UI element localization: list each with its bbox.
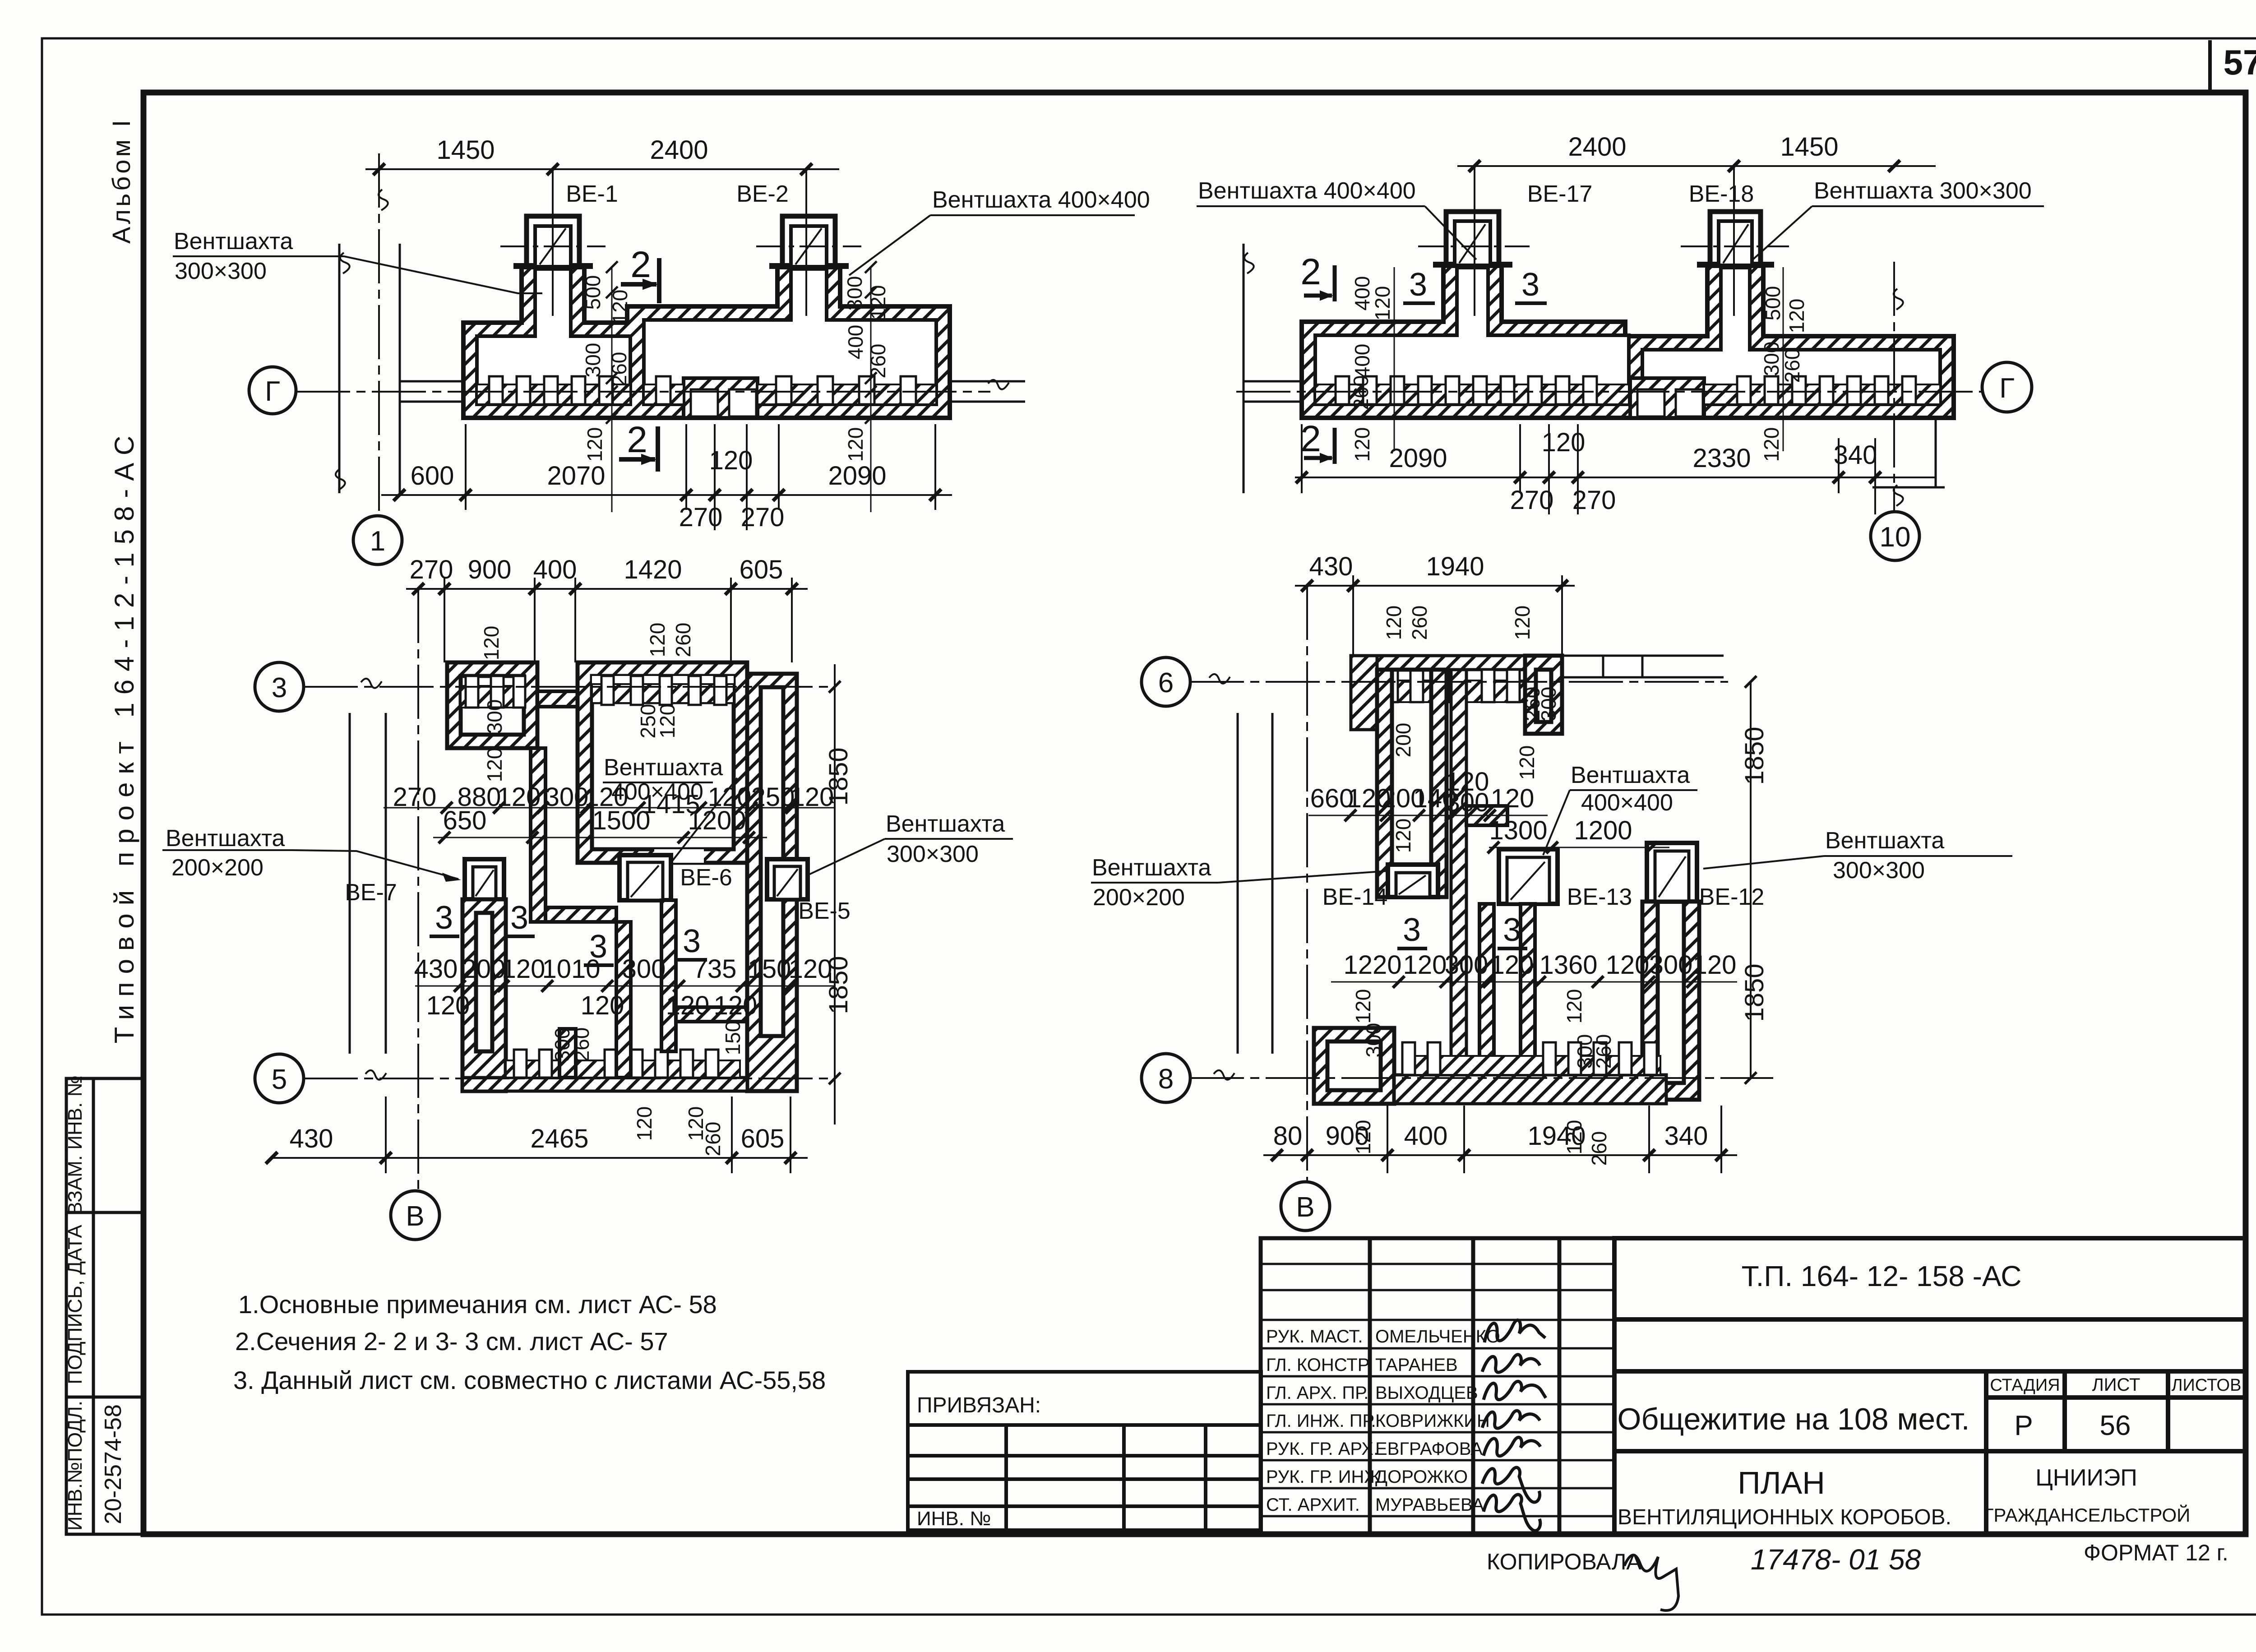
svg-text:Вентшахта: Вентшахта [1092, 855, 1211, 881]
svg-text:СТ. АРХИТ.: СТ. АРХИТ. [1266, 1495, 1360, 1515]
svg-text:120: 120 [1606, 950, 1650, 980]
wall break lines TR left [1243, 244, 1245, 493]
top right box BR [1525, 656, 1562, 734]
central wall BR [1451, 670, 1466, 1074]
svg-text:Вентшахта: Вентшахта [1571, 762, 1690, 788]
svg-text:300: 300 [622, 954, 666, 984]
left margin stamp table [66, 1078, 143, 1534]
svg-text:Вентшахта 400×400: Вентшахта 400×400 [932, 187, 1150, 213]
svg-text:1360: 1360 [1539, 950, 1597, 980]
svg-text:400: 400 [1350, 344, 1374, 379]
svg-text:120: 120 [426, 991, 470, 1020]
svg-text:400×400: 400×400 [1581, 790, 1673, 816]
section mark 2-2 upper TL [621, 258, 659, 303]
svg-text:ГЛ. КОНСТР.: ГЛ. КОНСТР. [1266, 1355, 1371, 1375]
svg-text:1300: 1300 [1489, 816, 1547, 845]
svg-text:260: 260 [1587, 1131, 1611, 1166]
svg-text:ПОДПИСЬ, ДАТА: ПОДПИСЬ, ДАТА [64, 1225, 86, 1384]
svg-text:340: 340 [1664, 1121, 1708, 1151]
svg-text:КОВРИЖКИН: КОВРИЖКИН [1375, 1411, 1490, 1431]
svg-text:РУК. ГР. ИНЖ.: РУК. ГР. ИНЖ. [1266, 1467, 1386, 1487]
column C right [747, 674, 797, 1091]
wall break lines BR left [1237, 713, 1239, 1054]
junction block TR [1630, 378, 1704, 418]
bottom wall strip left room TL [477, 384, 630, 404]
mid dim row 1 BL [384, 807, 835, 809]
shaft BE-18 box [1710, 212, 1761, 266]
svg-text:3: 3 [1503, 912, 1521, 948]
svg-text:1420: 1420 [624, 555, 682, 584]
svg-text:ВЕ-18: ВЕ-18 [1689, 181, 1754, 207]
svg-text:1415: 1415 [642, 790, 700, 819]
shaft BE-12 box [1647, 843, 1697, 902]
small vertical dims near BE-1 [611, 267, 613, 512]
svg-text:120: 120 [502, 954, 546, 984]
svg-text:260: 260 [866, 344, 890, 379]
svg-text:ТАРАНЕВ: ТАРАНЕВ [1375, 1355, 1458, 1375]
svg-text:120: 120 [1693, 950, 1737, 980]
left stamp labels [64, 1075, 126, 1531]
block A teeth [466, 676, 525, 708]
svg-text:ОМЕЛЬЧЕНКО: ОМЕЛЬЧЕНКО [1375, 1327, 1500, 1347]
svg-text:КОПИРОВАЛА: КОПИРОВАЛА [1487, 1549, 1641, 1574]
svg-text:260: 260 [1408, 606, 1431, 640]
small vertical dims near BE-18 [1783, 267, 1784, 451]
small vertical dims near BE-17 [1394, 267, 1395, 451]
svg-text:270: 270 [1510, 486, 1554, 515]
svg-text:120: 120 [1392, 819, 1415, 853]
axis Г line [296, 391, 990, 393]
svg-text:120: 120 [1351, 1120, 1375, 1155]
top teeth strip BR [1377, 680, 1525, 702]
right vertical dim BL [834, 664, 836, 1124]
svg-text:1450: 1450 [436, 135, 495, 165]
BE-6 seat opening [654, 849, 704, 863]
svg-text:В: В [406, 1201, 424, 1232]
svg-text:ВЕ-5: ВЕ-5 [798, 898, 851, 924]
svg-text:300: 300 [1446, 788, 1489, 817]
svg-text:300: 300 [1445, 950, 1489, 980]
svg-text:2400: 2400 [650, 135, 708, 165]
svg-text:1200: 1200 [1574, 816, 1632, 845]
bottom teeth strip E [506, 1060, 740, 1078]
block B center-top [578, 662, 747, 863]
block A right-bottom wall going down [531, 748, 546, 922]
adjacent wall thin top right BR [1562, 656, 1724, 677]
block A top-left [447, 662, 537, 748]
svg-text:1850: 1850 [824, 747, 853, 805]
svg-text:ВЕ-17: ВЕ-17 [1527, 181, 1593, 207]
svg-text:120: 120 [1382, 606, 1405, 640]
svg-text:430: 430 [1309, 552, 1353, 581]
svg-text:260: 260 [701, 1122, 725, 1157]
svg-text:6: 6 [1158, 667, 1174, 699]
svg-text:Типовой проект 164-12-158-АС: Типовой проект 164-12-158-АС [109, 428, 139, 1044]
svg-text:120: 120 [1760, 427, 1783, 462]
svg-text:56: 56 [2100, 1410, 2131, 1441]
ducts below BE-13 [1479, 904, 1494, 1074]
svg-text:120: 120 [1371, 286, 1394, 321]
svg-text:ВЕ-1: ВЕ-1 [566, 181, 618, 207]
svg-text:300: 300 [545, 782, 589, 812]
svg-text:Вентшахта: Вентшахта [604, 754, 723, 781]
svg-text:2: 2 [1300, 418, 1321, 459]
svg-text:Вентшахта: Вентшахта [886, 811, 1005, 837]
svg-text:ВЫХОДЦЕВ: ВЫХОДЦЕВ [1375, 1383, 1478, 1403]
section mark 2-2 lower TR [1304, 428, 1335, 464]
junction block TL [684, 378, 758, 418]
svg-text:1940: 1940 [1426, 552, 1484, 581]
signature table [1261, 1238, 1614, 1534]
svg-text:600: 600 [411, 461, 454, 491]
svg-text:120: 120 [656, 704, 679, 739]
svg-text:1850: 1850 [1740, 963, 1769, 1022]
column D below BE-7 [462, 899, 506, 1091]
svg-text:2: 2 [627, 419, 647, 460]
svg-text:РУК. ГР. АРХ.: РУК. ГР. АРХ. [1266, 1439, 1378, 1459]
svg-text:200: 200 [1392, 723, 1415, 758]
svg-text:300: 300 [581, 343, 605, 378]
svg-text:Р: Р [2014, 1410, 2033, 1441]
bottom teeth E [514, 1050, 718, 1078]
svg-text:3. Данный лист см. совместн: 3. Данный лист см. совместно с листами А… [233, 1366, 826, 1394]
section mark 2-2 upper TR [1304, 265, 1335, 301]
svg-text:ДОРОЖКО: ДОРОЖКО [1375, 1467, 1468, 1487]
svg-text:260: 260 [607, 352, 631, 387]
svg-text:3: 3 [589, 929, 607, 965]
svg-text:3: 3 [1409, 267, 1427, 303]
svg-text:120: 120 [1785, 299, 1808, 333]
svg-text:10: 10 [1880, 522, 1911, 553]
svg-text:200×200: 200×200 [171, 855, 264, 881]
svg-text:Альбом I: Альбом I [107, 117, 135, 244]
axis 10 circle [1871, 512, 1919, 560]
svg-text:2: 2 [630, 244, 651, 285]
svg-text:120: 120 [480, 626, 503, 661]
break marks [336, 190, 1903, 1080]
right room TR [1642, 268, 1940, 404]
svg-text:Г: Г [1999, 373, 2015, 404]
svg-text:120: 120 [483, 748, 506, 782]
svg-text:Общежитие на 108 мест.: Общежитие на 108 мест. [1617, 1402, 1969, 1436]
bottom band BR [1394, 1075, 1666, 1104]
svg-text:ИНВ.№ПОДЛ.: ИНВ.№ПОДЛ. [64, 1401, 86, 1531]
shaft BE-2 box [782, 216, 835, 267]
svg-text:300×300: 300×300 [175, 258, 267, 284]
svg-text:400: 400 [1404, 1121, 1448, 1151]
svg-text:В: В [1296, 1192, 1314, 1223]
axis 6 [1190, 681, 1728, 683]
bottom teeth strip BR [1402, 1056, 1660, 1075]
wall silhouette TR [1302, 266, 1954, 418]
svg-text:3: 3 [1521, 267, 1539, 303]
svg-text:ВЗАМ. ИНВ. №: ВЗАМ. ИНВ. № [64, 1075, 86, 1215]
svg-text:120: 120 [1490, 950, 1534, 980]
right vertical dim BR [1750, 682, 1752, 1078]
svg-text:120: 120 [608, 290, 632, 324]
svg-text:3: 3 [272, 672, 287, 703]
middle duct wall below BE-6 [661, 900, 676, 1051]
svg-text:120: 120 [1351, 989, 1375, 1024]
top dimension line TL [365, 163, 839, 175]
svg-text:400: 400 [533, 555, 577, 584]
svg-text:ВЕ-13: ВЕ-13 [1567, 884, 1632, 910]
svg-text:605: 605 [741, 1124, 785, 1153]
svg-text:80: 80 [1273, 1121, 1303, 1151]
svg-text:ФОРМАТ 12 г.: ФОРМАТ 12 г. [2084, 1540, 2228, 1565]
left corner block BR [1351, 656, 1377, 730]
bottom wall strip right room TR [1704, 384, 1940, 404]
sheet number box [2210, 40, 2256, 93]
shaft BE-5 box [767, 859, 808, 899]
svg-text:3: 3 [683, 923, 701, 959]
svg-text:120: 120 [844, 427, 867, 462]
svg-text:900: 900 [468, 555, 512, 584]
mid dim row 3 BR [1331, 981, 1737, 983]
svg-text:3: 3 [435, 900, 453, 936]
top band BR [1377, 656, 1525, 670]
axis B vertical [417, 589, 419, 1191]
svg-text:2090: 2090 [1389, 444, 1447, 473]
svg-text:Т.П. 164- 12- 158 -АС: Т.П. 164- 12- 158 -АС [1742, 1260, 2022, 1292]
axis B vertical right plan [1306, 586, 1308, 1182]
svg-text:120: 120 [1350, 427, 1374, 462]
section mark 2-2 lower TL [619, 426, 658, 472]
mid dim row 1 BR [1308, 815, 1548, 816]
shaft BE-1 box [527, 216, 579, 267]
mid dim row 3 BL [415, 986, 835, 987]
wall silhouette TL [463, 267, 950, 418]
svg-text:ПЛАН: ПЛАН [1738, 1465, 1825, 1500]
svg-text:8: 8 [1158, 1064, 1174, 1095]
svg-text:17478- 01 58: 17478- 01 58 [1751, 1543, 1921, 1576]
left room TL [477, 269, 630, 404]
svg-text:120: 120 [714, 991, 758, 1020]
right column BR [1642, 902, 1699, 1100]
svg-text:300: 300 [1537, 687, 1560, 722]
svg-text:Вентшахта 400×400: Вентшахта 400×400 [1198, 178, 1416, 204]
svg-text:ВЕ-2: ВЕ-2 [736, 181, 789, 207]
svg-text:5: 5 [272, 1064, 287, 1095]
svg-text:2330: 2330 [1692, 444, 1751, 473]
left room TR [1315, 268, 1629, 404]
svg-text:СТАДИЯ: СТАДИЯ [1990, 1376, 2060, 1395]
svg-text:Вентшахта: Вентшахта [174, 228, 293, 255]
block B room lowered top [592, 676, 734, 703]
svg-text:57: 57 [2224, 42, 2256, 82]
svg-text:ГРАЖДАНСЕЛЬСТРОЙ: ГРАЖДАНСЕЛЬСТРОЙ [1983, 1504, 2191, 1526]
bottom dimension line TR [1295, 424, 1936, 514]
top dimension row BR [1295, 575, 1575, 656]
right room TL [644, 269, 936, 404]
mid dim row 2 BL [433, 837, 767, 838]
svg-text:Г: Г [265, 376, 280, 407]
bottom left return BR [1314, 1028, 1394, 1104]
svg-text:МУРАВЬЕВА: МУРАВЬЕВА [1375, 1495, 1484, 1515]
comb teeth left room TR [1336, 376, 1597, 404]
svg-text:ПРИВЯЗАН:: ПРИВЯЗАН: [917, 1393, 1041, 1417]
svg-text:120: 120 [1515, 745, 1539, 780]
shaft BE-13 box [1499, 849, 1558, 904]
svg-text:ГЛ. АРХ. ПР.: ГЛ. АРХ. ПР. [1266, 1383, 1368, 1403]
svg-text:120: 120 [633, 1106, 656, 1141]
block B teeth strip [592, 684, 734, 703]
svg-text:300×300: 300×300 [887, 841, 979, 867]
mid dim row 2 BR [1489, 847, 1669, 848]
svg-text:150: 150 [748, 954, 791, 984]
junction openings TL [691, 389, 718, 416]
svg-text:200×200: 200×200 [1093, 884, 1185, 911]
signature table names [1375, 1327, 1500, 1515]
svg-text:120: 120 [497, 782, 541, 812]
bottom dimension BL [266, 1097, 808, 1173]
wall continue right TR [1935, 420, 1937, 487]
svg-text:1.Основные примечания см. ли: 1.Основные примечания см. лист АС- 58 [238, 1290, 717, 1319]
shaft BE-14 box [1388, 865, 1438, 897]
bottom center pier [559, 1029, 576, 1078]
svg-text:ВЕНТИЛЯЦИОННЫХ КОРОБОВ.: ВЕНТИЛЯЦИОННЫХ КОРОБОВ. [1618, 1505, 1951, 1529]
svg-text:3: 3 [1403, 912, 1421, 948]
shaft BE-6 box [619, 855, 671, 900]
axis Г circle [249, 367, 296, 414]
svg-text:Вентшахта 300×300: Вентшахта 300×300 [1814, 178, 2032, 204]
svg-text:300: 300 [1760, 342, 1783, 376]
svg-text:2.Сечения 2- 2 и 3- 3 см.: 2.Сечения 2- 2 и 3- 3 см. лист АС- 57 [235, 1327, 668, 1356]
svg-text:ЛИСТОВ: ЛИСТОВ [2172, 1376, 2242, 1395]
long duct BE-14 BR [1377, 670, 1447, 897]
svg-text:500: 500 [1761, 286, 1784, 321]
svg-text:270: 270 [393, 782, 437, 812]
svg-text:300: 300 [1649, 950, 1693, 980]
connector band A-B [537, 691, 578, 707]
axis 5 [304, 1078, 835, 1079]
svg-text:250: 250 [751, 782, 795, 812]
svg-text:2090: 2090 [828, 461, 886, 491]
svg-text:120: 120 [646, 623, 669, 657]
svg-text:120: 120 [866, 285, 890, 320]
svg-text:Вентшахта: Вентшахта [166, 825, 285, 851]
svg-text:1850: 1850 [824, 956, 853, 1014]
room 735 bottom band [676, 1007, 747, 1022]
svg-text:120: 120 [1491, 784, 1535, 813]
svg-text:1850: 1850 [1740, 727, 1769, 785]
top dimension row BL [406, 578, 808, 662]
svg-text:260: 260 [1780, 348, 1804, 383]
svg-text:120: 120 [1542, 428, 1586, 457]
top dimension line TR [1457, 160, 1936, 172]
svg-text:ВЕ-7: ВЕ-7 [345, 879, 397, 906]
axis Г circle right [1982, 362, 2032, 412]
svg-text:ЕВГРАФОВА: ЕВГРАФОВА [1375, 1439, 1483, 1459]
svg-text:270: 270 [741, 503, 785, 532]
svg-text:430: 430 [290, 1124, 333, 1153]
bottom dimension BR [1263, 1106, 1737, 1173]
svg-text:500: 500 [581, 275, 605, 310]
svg-text:340: 340 [1834, 440, 1877, 470]
bottom dimension line TL [381, 424, 952, 530]
bottom wall strip right room TL [644, 384, 684, 404]
svg-text:ВЕ-6: ВЕ-6 [680, 865, 732, 891]
svg-text:120: 120 [1563, 989, 1586, 1024]
svg-text:605: 605 [740, 555, 783, 584]
svg-text:120: 120 [581, 991, 624, 1020]
svg-text:ВЕ-14: ВЕ-14 [1322, 884, 1388, 910]
svg-text:1220: 1220 [1343, 950, 1401, 980]
svg-text:270: 270 [679, 503, 723, 532]
privyazan table [908, 1372, 1261, 1530]
shaft BE-7 box [465, 859, 504, 899]
svg-text:РУК. МАСТ.: РУК. МАСТ. [1266, 1327, 1363, 1347]
svg-text:2465: 2465 [530, 1124, 588, 1153]
svg-text:Вентшахта: Вентшахта [1825, 828, 1944, 854]
bottom teeth BR [1402, 1042, 1657, 1075]
svg-text:120: 120 [709, 446, 753, 475]
svg-text:300: 300 [1362, 1023, 1385, 1058]
svg-text:400: 400 [844, 325, 867, 360]
svg-text:270: 270 [1572, 486, 1616, 515]
svg-text:ЦНИИЭП: ЦНИИЭП [2035, 1465, 2137, 1491]
svg-text:200: 200 [462, 954, 506, 984]
bottom band E [462, 1078, 747, 1091]
svg-text:3: 3 [510, 900, 528, 936]
svg-text:260: 260 [671, 623, 695, 657]
svg-text:ЛИСТ: ЛИСТ [2092, 1375, 2140, 1395]
svg-text:260: 260 [1349, 375, 1373, 410]
block A teeth strip [461, 686, 524, 708]
svg-text:260: 260 [1592, 1034, 1615, 1069]
svg-text:260: 260 [570, 1027, 593, 1062]
shaft BE-17 box [1446, 212, 1499, 266]
svg-text:120: 120 [1511, 606, 1534, 640]
wall break lines BL left [349, 713, 351, 1054]
wall break lines left [338, 244, 341, 493]
svg-text:1: 1 [370, 526, 385, 557]
svg-text:430: 430 [414, 954, 458, 984]
middle wall G with stub [546, 907, 616, 922]
wall continue lines right of TL plan [950, 380, 1025, 383]
svg-text:300: 300 [483, 699, 506, 734]
svg-text:1450: 1450 [1780, 132, 1838, 162]
svg-text:270: 270 [410, 555, 453, 584]
svg-text:2: 2 [1300, 251, 1321, 292]
svg-text:650: 650 [443, 806, 487, 835]
comb teeth right room TL [656, 376, 916, 404]
bottom wall strip left room TR [1315, 384, 1629, 404]
top teeth BR [1385, 670, 1520, 702]
axis 3 [304, 686, 835, 688]
axis 1 circle [353, 516, 402, 565]
svg-text:300: 300 [843, 276, 866, 311]
block B teeth [601, 676, 726, 705]
axis 1 line [378, 153, 380, 516]
svg-text:ИНВ. №: ИНВ. № [917, 1508, 991, 1530]
notes [233, 1290, 826, 1394]
svg-text:120: 120 [666, 991, 710, 1020]
svg-text:20-2574-58: 20-2574-58 [100, 1404, 126, 1524]
svg-text:ВЕ-12: ВЕ-12 [1699, 884, 1765, 910]
comb teeth left room TL [489, 376, 613, 404]
svg-text:300×300: 300×300 [1833, 857, 1925, 884]
axis Г line right [1236, 391, 1982, 393]
svg-text:2070: 2070 [547, 461, 605, 491]
central stub BR [1466, 806, 1507, 825]
comb teeth right room TR [1737, 376, 1916, 404]
svg-text:2400: 2400 [1568, 132, 1626, 162]
svg-text:ГЛ. ИНЖ. ПР.: ГЛ. ИНЖ. ПР. [1266, 1411, 1376, 1431]
svg-text:120: 120 [1403, 950, 1447, 980]
svg-text:120: 120 [583, 427, 606, 462]
axis 8 [1190, 1077, 1773, 1079]
